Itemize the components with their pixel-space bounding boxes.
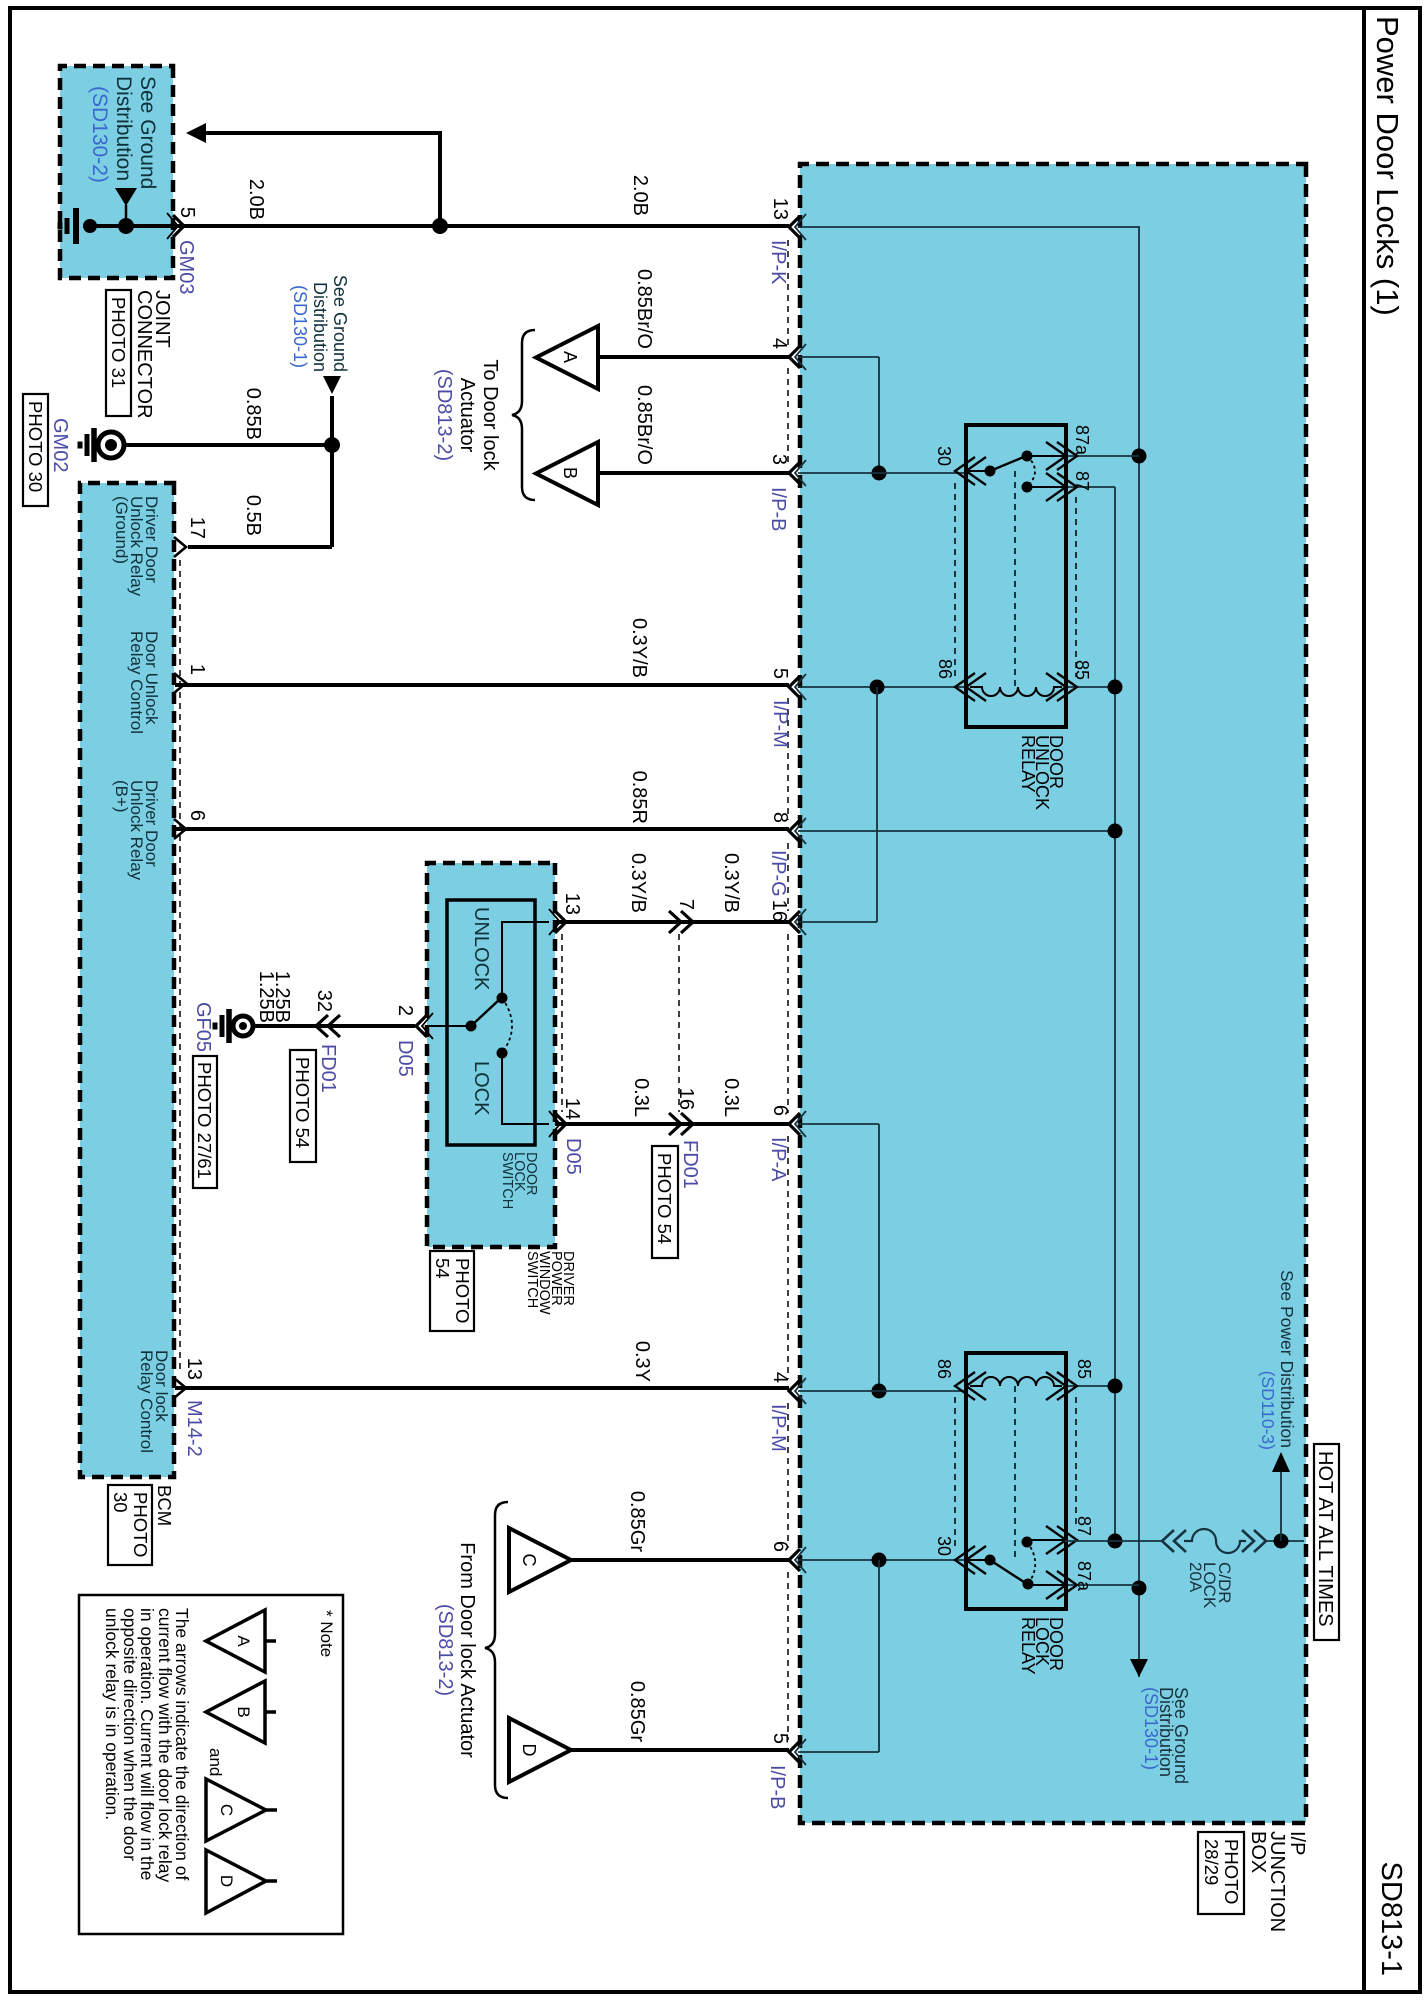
svg-text:D05: D05: [394, 1040, 416, 1077]
door lock switch inner box: [447, 900, 535, 1145]
wire 0.3Y/B (conn16 to switch pin13): [555, 920, 789, 924]
svg-text:7: 7: [675, 899, 697, 910]
svg-text:20A: 20A: [1186, 1562, 1205, 1593]
lock relay switch arm 30-87a: [990, 1560, 1027, 1584]
GM03 joint connector box (cyan dashed): [60, 66, 173, 278]
svg-text:13: 13: [561, 893, 583, 915]
connector pin 4 I/P-M lower: [789, 1380, 800, 1402]
svg-text:(B+): (B+): [112, 780, 131, 813]
ground GM02: [98, 432, 124, 458]
svg-text:GF05: GF05: [192, 1002, 214, 1052]
arrow to ground distribution SD130-1 (right end of bus): [1130, 1659, 1148, 1677]
relay: DOOR UNLOCK RELAY box: [966, 425, 1066, 727]
branch conn5 I/P-B: [878, 1560, 880, 1752]
fuse upper inline connector: [1254, 1530, 1266, 1552]
lock pin chevron 85: [1057, 1372, 1077, 1400]
arrow down to ground distribution SD130-2: [186, 123, 206, 143]
wire 0.85Br/O (conn3 to triangle B): [598, 471, 789, 475]
svg-text:PHOTO: PHOTO: [1221, 1839, 1242, 1904]
ground GF05: [233, 1016, 253, 1036]
svg-text:GM02: GM02: [49, 418, 71, 472]
svg-text:LOCK: LOCK: [470, 1061, 492, 1116]
junction dot bus2/conn8: [1108, 824, 1123, 839]
wire 0.5B (to BCM pin17): [330, 445, 334, 547]
svg-text:3: 3: [768, 454, 790, 465]
junction dot bus1/lock-87a: [1132, 1581, 1147, 1596]
svg-text:HOT AT ALL TIMES: HOT AT ALL TIMES: [1314, 1451, 1336, 1627]
photo box PHOTO 54 (FD01): [652, 1146, 678, 1258]
connector pin 3 I/P-B: [789, 462, 800, 484]
svg-text:A: A: [234, 1635, 253, 1647]
lock pin chevron 30: [955, 1546, 975, 1574]
svg-text:See Ground: See Ground: [330, 275, 350, 372]
wire 0.3Y (BCM pin13 to conn4): [175, 1386, 789, 1390]
svg-text:5: 5: [769, 1733, 791, 1744]
wire 0.85R (conn8 to BCM pin6): [175, 827, 789, 831]
connector pin 8 I/P-G: [789, 820, 800, 842]
unlock relay switch: stub 30: [968, 470, 990, 472]
stub unlock-87 to bus2: [1066, 486, 1115, 488]
svg-text:(SD130-1): (SD130-1): [1141, 1687, 1161, 1770]
unlock relay mech dashed link to coil: [1014, 471, 1016, 687]
svg-text:BOX: BOX: [1247, 1831, 1269, 1873]
pin chevron 86: [955, 673, 975, 701]
svg-text:Relay Control: Relay Control: [127, 631, 146, 734]
svg-text:M14-2: M14-2: [183, 1400, 205, 1457]
inline connector 7: [681, 911, 693, 933]
svg-text:UNLOCK: UNLOCK: [470, 907, 492, 991]
note box: [79, 1595, 343, 1934]
svg-text:From Door lock Actuator: From Door lock Actuator: [456, 1542, 478, 1758]
svg-text:54: 54: [432, 1258, 453, 1279]
svg-text:Distribution: Distribution: [112, 76, 135, 181]
svg-text:Power Door Locks (1): Power Door Locks (1): [1370, 16, 1405, 316]
wire 0.85B (GM02): [125, 443, 332, 447]
connector pin 6 I/P-A: [789, 1113, 800, 1135]
BCM pin 17: [174, 537, 186, 557]
svg-text:(SD110-3): (SD110-3): [1258, 1371, 1278, 1450]
triangle connector C: [509, 1528, 571, 1592]
lock relay switch: stub 30: [968, 1559, 990, 1561]
dashed pin link along BCM edge: [179, 560, 181, 1374]
junction dot conn3 riser: [872, 466, 887, 481]
svg-text:2.0B: 2.0B: [629, 175, 651, 216]
legend triangle A: [265, 1639, 276, 1643]
svg-text:RELAY: RELAY: [1018, 1617, 1038, 1675]
svg-text:I/P-B: I/P-B: [767, 487, 789, 531]
svg-text:(SD813-2): (SD813-2): [434, 1604, 456, 1696]
stub unlock-87a to bus1: [1066, 455, 1139, 457]
BCM pin 13: [174, 1378, 186, 1398]
svg-text:0.85B: 0.85B: [242, 388, 264, 440]
BCM box (cyan dashed): [80, 483, 174, 1477]
svg-text:32: 32: [313, 990, 335, 1012]
arrow See Power Distribution: [1272, 1452, 1290, 1472]
photo box PHOTO 30 (BCM): [108, 1485, 152, 1565]
svg-text:2: 2: [394, 1005, 416, 1016]
dashed pin link above lock relay: [1075, 1397, 1077, 1529]
svg-text:FD01: FD01: [679, 1140, 701, 1189]
riser conn6 I/P-A: [798, 1123, 879, 1125]
lock relay mech dashed link to coil: [1014, 1386, 1016, 1560]
junction dot bus2/fuse: [1108, 1534, 1123, 1549]
GM03 pin 5 chevron: [173, 215, 184, 237]
lock relay dotted throw arc: [1027, 1542, 1035, 1584]
unlock relay switch arm 30-87a: [990, 456, 1026, 471]
svg-text:Distribution: Distribution: [310, 282, 330, 372]
svg-text:87a: 87a: [1074, 1561, 1094, 1592]
junction dot GM02/pin17 node: [324, 437, 340, 453]
legend triangle D: [266, 1879, 277, 1883]
connector pin 5 I/P-B lock: [789, 1741, 800, 1763]
UNLOCK contact dot: [497, 993, 508, 1004]
svg-text:CONNECTOR: CONNECTOR: [133, 290, 155, 419]
photo box PHOTO 30 (GM02): [23, 394, 48, 506]
svg-text:SWITCH: SWITCH: [524, 1251, 540, 1308]
junction dot conn4(I/P-M) riser: [872, 1384, 887, 1399]
stub lock-87a to bus1: [1065, 1584, 1139, 1586]
svg-text:C: C: [217, 1804, 236, 1816]
unlock relay switch: stub 87: [1027, 486, 1064, 488]
BCM pin 6: [174, 819, 186, 839]
driver power window switch box (cyan dashed): [427, 863, 555, 1247]
junction dot bus2/unlock-85: [1108, 680, 1123, 695]
pin chevron 30: [955, 457, 975, 485]
riser conn4 to A: [798, 356, 879, 358]
wire 2.0B (GM03 to I/P-K): [175, 224, 789, 228]
connector pin 6 lock: [789, 1549, 800, 1571]
junction dot bus2/lock-85: [1108, 1379, 1123, 1394]
svg-text:A: A: [560, 351, 580, 363]
svg-text:85: 85: [1072, 660, 1092, 680]
svg-text:0.3Y/B: 0.3Y/B: [627, 853, 649, 913]
switch inner wire pin13 to UNLOCK contact: [502, 922, 549, 995]
brace From Door lock Actuator: [485, 1502, 508, 1798]
svg-text:16: 16: [768, 900, 790, 922]
svg-text:B: B: [560, 467, 580, 479]
pin chevron 85: [1057, 673, 1077, 701]
svg-text:D05: D05: [562, 1138, 584, 1175]
inline connector 16 FD01: [681, 1113, 693, 1135]
riser conn5 I/P-M to unlock relay 86: [798, 686, 966, 688]
I/P junction box (cyan dashed): [800, 164, 1306, 1823]
svg-text:17: 17: [186, 517, 208, 539]
svg-text:opposite direction when the do: opposite direction when the door: [120, 1608, 140, 1861]
lock pin chevron 86: [955, 1372, 975, 1400]
svg-text:87: 87: [1074, 1516, 1094, 1536]
triangle connector B: [536, 442, 598, 505]
svg-text:SWITCH: SWITCH: [499, 1152, 515, 1209]
svg-text:I/P-G: I/P-G: [767, 850, 789, 897]
svg-text:6: 6: [769, 1541, 791, 1552]
wire: bus B+ (87a bus): [1138, 227, 1140, 1677]
unlock relay coil: [970, 687, 1062, 696]
svg-text:4: 4: [768, 338, 790, 349]
LOCK contact dot: [497, 1048, 508, 1059]
svg-text:0.5B: 0.5B: [242, 495, 264, 536]
triangle connector A: [536, 326, 598, 389]
connector pin 13 I/P-K: [789, 216, 800, 238]
photo box PHOTO 31: [106, 290, 131, 416]
svg-text:PHOTO 31: PHOTO 31: [108, 297, 129, 388]
svg-text:0.3L: 0.3L: [630, 1078, 652, 1117]
wire 0.85Gr (conn6 to triangle C): [571, 1558, 789, 1562]
wire 0.3L (conn6 to switch pin14): [555, 1122, 789, 1126]
switch inner wire pin14 to LOCK contact: [502, 1056, 549, 1124]
svg-text:(Ground): (Ground): [112, 496, 131, 564]
photo box PHOTO 54 (switch): [430, 1251, 474, 1331]
svg-text:6: 6: [186, 810, 208, 821]
svg-text:86: 86: [935, 659, 955, 679]
connector pin 4: [789, 346, 800, 368]
unlock relay dotted throw arc: [1027, 456, 1035, 487]
svg-text:14: 14: [561, 1098, 583, 1120]
svg-text:To Door lock: To Door lock: [479, 359, 501, 471]
svg-text:1.25B: 1.25B: [255, 971, 277, 1023]
dashed pin link above unlock relay: [1075, 497, 1077, 677]
svg-text:D: D: [217, 1875, 236, 1887]
svg-text:PHOTO 27/61: PHOTO 27/61: [194, 1062, 215, 1179]
fuse lower inline connector: [1162, 1530, 1174, 1552]
svg-text:I/P-K: I/P-K: [767, 240, 789, 285]
arrow SD130-1 (left): [323, 376, 341, 394]
relay: DOOR LOCK RELAY box: [966, 1353, 1066, 1609]
svg-text:GM03: GM03: [175, 240, 197, 294]
junction dot conn6 riser: [872, 1553, 887, 1568]
svg-text:4: 4: [769, 1372, 791, 1383]
switch dotted arc: [502, 998, 512, 1053]
wire pin1 riser: [174, 681, 175, 685]
switch pole wire to pin 2: [427, 1025, 471, 1027]
svg-text:PHOTO 54: PHOTO 54: [654, 1153, 675, 1244]
BCM pin 1: [174, 673, 186, 693]
dashed link along junction box bottom edge: [787, 240, 789, 345]
stub to See Ground Distribution SD130-1: [330, 396, 334, 445]
svg-text:Actuator: Actuator: [456, 378, 478, 453]
triangle connector D: [509, 1718, 571, 1782]
svg-text:86: 86: [934, 1359, 954, 1379]
boxed label HOT AT ALL TIMES: [1314, 1444, 1339, 1640]
riser conn4 I/P-M to lock relay 86: [798, 1390, 966, 1392]
wire branch to See Power Distribution: [1280, 1472, 1282, 1541]
title bar separator line: [1362, 8, 1366, 1992]
svg-text:30: 30: [110, 1492, 131, 1513]
dashed pin link below lock relay: [954, 1397, 956, 1549]
dashed link conn7-conn16: [678, 934, 680, 1112]
svg-text:13: 13: [183, 1358, 205, 1380]
unlock relay switch: stub 87a: [1027, 455, 1064, 457]
pin chevron 87a: [1057, 442, 1077, 470]
lock relay coil: [970, 1377, 1062, 1386]
junction dot hot branch: [1274, 1534, 1289, 1549]
pin chevron 87: [1057, 473, 1077, 501]
svg-text:and: and: [206, 1748, 225, 1776]
wire 1.25B (switch pin2 to GF05): [254, 1024, 415, 1028]
svg-text:5: 5: [769, 668, 791, 679]
dashed pin link below unlock relay: [954, 483, 956, 676]
svg-text:0.85Br/O: 0.85Br/O: [633, 385, 655, 465]
svg-text:8: 8: [769, 812, 791, 823]
svg-text:unlock relay is in operation.: unlock relay is in operation.: [102, 1608, 122, 1820]
wire lock-87 stub / fuse riser: [1065, 1540, 1162, 1542]
svg-text:0.3Y/B: 0.3Y/B: [628, 618, 650, 678]
switch arm: [471, 999, 500, 1026]
wire inside GM03 box: [90, 224, 173, 228]
svg-text:30: 30: [934, 446, 954, 466]
junction dot conn5 riser: [870, 680, 885, 695]
svg-text:0.85Gr: 0.85Gr: [626, 1491, 648, 1552]
svg-text:(SD130-1): (SD130-1): [290, 285, 310, 368]
svg-text:BCM: BCM: [154, 1485, 175, 1526]
junction dot bus1/unlock-87a: [1132, 449, 1147, 464]
svg-text:30: 30: [934, 1536, 954, 1556]
wire 0.85Gr (conn5 to triangle D): [571, 1748, 789, 1752]
svg-text:5: 5: [176, 207, 198, 218]
svg-text:current flow with the door loc: current flow with the door lock relay: [155, 1608, 175, 1883]
stub lock-85 to bus2: [1065, 1385, 1115, 1387]
branch to conn16: [876, 687, 878, 922]
switch pole dot: [466, 1021, 477, 1032]
svg-text:Relay Control: Relay Control: [137, 1350, 156, 1453]
legend triangle C: [266, 1808, 277, 1812]
svg-text:B: B: [234, 1706, 253, 1717]
svg-text:1: 1: [186, 664, 208, 675]
svg-text:I/P-M: I/P-M: [769, 700, 791, 748]
wire: I/P-K riser inside box: [798, 226, 1140, 228]
junction dot GM03 arrow branch: [118, 218, 134, 234]
inline connector 32 FD01: [316, 1015, 328, 1037]
lock pin chevron 87: [1057, 1526, 1077, 1554]
riser conn3 to unlock relay 30: [798, 472, 966, 474]
riser conn8 I/P-G to bus2: [798, 830, 1115, 832]
stub unlock-85 to bus2: [1066, 686, 1115, 688]
svg-text:0.85Br/O: 0.85Br/O: [633, 269, 655, 349]
wire fuse to top edge: [1266, 1540, 1304, 1542]
svg-text:87: 87: [1072, 471, 1092, 491]
svg-text:87a: 87a: [1072, 425, 1092, 456]
svg-text:RELAY: RELAY: [1018, 735, 1038, 793]
svg-text:0.3Y: 0.3Y: [631, 1341, 653, 1382]
brace To Door lock Actuator: [512, 330, 535, 500]
svg-text:FD01: FD01: [317, 1044, 339, 1093]
svg-text:6: 6: [769, 1105, 791, 1116]
svg-text:PHOTO 30: PHOTO 30: [25, 401, 46, 492]
lock relay switch: stub 87: [1027, 1539, 1064, 1541]
lock pin chevron 87a: [1057, 1571, 1077, 1599]
switch pin 13: [555, 911, 566, 933]
photo box PHOTO 27/61: [193, 1056, 217, 1188]
lock relay switch: stub 87a: [1028, 1584, 1064, 1586]
wire 0.3Y/B (conn5 to BCM pin1): [175, 683, 789, 687]
svg-text:I/P-B: I/P-B: [766, 1765, 788, 1809]
wire 0.85Br/O (conn4 to triangle A): [598, 355, 789, 359]
svg-text:D: D: [519, 1744, 539, 1757]
photo box PHOTO 28/29: [1198, 1832, 1244, 1914]
svg-text:85: 85: [1074, 1359, 1094, 1379]
riser conn6(lock) to lock relay 30: [798, 1559, 967, 1561]
svg-text:SD813-1: SD813-1: [1375, 1862, 1407, 1976]
photo box PHOTO 54 (conn32): [290, 1050, 316, 1162]
wire branch to SD130-2 arrow: [438, 133, 442, 226]
dashed link pins 13-14: [561, 934, 563, 1112]
legend triangle B: [265, 1710, 276, 1714]
junction dot 2.0B branch: [432, 218, 448, 234]
svg-text:0.3L: 0.3L: [720, 1078, 742, 1117]
svg-text:PHOTO: PHOTO: [452, 1258, 473, 1323]
svg-text:* Note: * Note: [317, 1610, 336, 1657]
svg-text:0.3Y/B: 0.3Y/B: [720, 853, 742, 913]
svg-text:(SD813-2): (SD813-2): [433, 369, 455, 461]
svg-text:0.85Gr: 0.85Gr: [626, 1681, 648, 1742]
switch pin 14: [555, 1113, 566, 1135]
svg-text:2.0B: 2.0B: [245, 179, 267, 220]
svg-text:I/P-A: I/P-A: [767, 1137, 789, 1182]
connector pin 5 I/P-M: [789, 676, 800, 698]
svg-text:13: 13: [769, 198, 791, 220]
current arrow in GM03 box: [125, 205, 128, 226]
svg-text:0.85R: 0.85R: [628, 771, 650, 824]
svg-text:(SD130-2): (SD130-2): [88, 86, 111, 183]
svg-text:See Power Distribution: See Power Distribution: [1277, 1270, 1297, 1448]
svg-text:I/P-M: I/P-M: [767, 1404, 789, 1452]
svg-text:PHOTO: PHOTO: [130, 1492, 151, 1557]
wire: bus 87/85: [1114, 487, 1116, 1541]
connector pin 16: [789, 911, 800, 933]
svg-text:PHOTO 54: PHOTO 54: [292, 1057, 313, 1148]
svg-text:See Ground: See Ground: [136, 76, 159, 189]
ground GM03: [83, 219, 97, 233]
fuse C/DR LOCK 20A element: [1184, 1529, 1246, 1553]
svg-text:I/P: I/P: [1286, 1831, 1308, 1855]
svg-text:C: C: [519, 1554, 539, 1567]
svg-text:16: 16: [675, 1088, 697, 1110]
switch pin 2: [416, 1015, 427, 1037]
svg-text:28/29: 28/29: [1201, 1839, 1222, 1885]
